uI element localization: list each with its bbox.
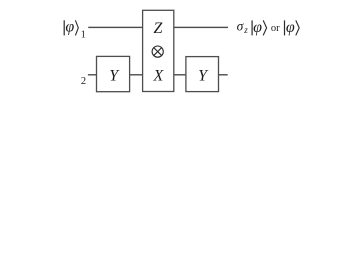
wire qubit-2 input stub (88, 74, 97, 75)
svg-text:φ: φ (65, 19, 74, 36)
tensor product symbol ⊗ (152, 46, 163, 57)
wire qubit-2 between Z⊗X box and right Y (174, 74, 186, 75)
wire qubit-2 output stub (219, 74, 228, 75)
svg-text:or: or (271, 23, 280, 34)
gate Y (left) box (97, 56, 130, 91)
node label |φ⟩₁ input qubit 1 (64, 19, 86, 41)
wire qubit-1 input segment (88, 27, 143, 28)
svg-text:z: z (243, 25, 248, 35)
svg-text:1: 1 (81, 30, 86, 41)
wire qubit-1 output segment (174, 27, 228, 28)
output label σ_z|φ⟩ or |φ⟩ (237, 19, 300, 36)
svg-text:φ: φ (286, 19, 295, 36)
svg-text:X: X (153, 68, 165, 85)
svg-text:Z: Z (154, 20, 164, 37)
wire qubit-2 between left Y and Z⊗X box (130, 74, 143, 75)
svg-text:2: 2 (81, 76, 86, 87)
gate Z⊗X box (143, 10, 174, 91)
gate Y (right) box (186, 57, 219, 92)
svg-text:φ: φ (253, 19, 262, 36)
